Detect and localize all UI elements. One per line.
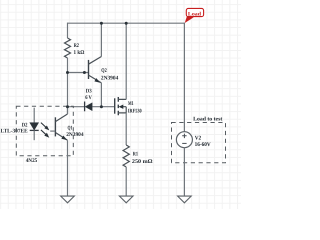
svg-text:4N25: 4N25 [26, 158, 38, 164]
svg-text:6 V: 6 V [85, 95, 92, 101]
wire right vertical to V2 [183, 23, 185, 132]
svg-text:D2: D2 [22, 122, 28, 128]
svg-text:D3: D3 [86, 89, 92, 95]
svg-text:LTL-307EE: LTL-307EE [1, 129, 28, 135]
led D2 [30, 123, 39, 131]
wire R2 top lead [67, 23, 69, 38]
ground middle [119, 196, 133, 203]
svg-text:16-60V: 16-60V [195, 142, 211, 148]
wire M1 source down to R1 [125, 113, 127, 145]
load-to-test dashed box [172, 123, 226, 163]
light arrow 2 [41, 130, 49, 138]
background grid [0, 0, 241, 209]
node dot D3 / Q1 collector [66, 105, 69, 108]
svg-text:R2: R2 [74, 43, 79, 49]
ground right [178, 196, 192, 203]
svg-text:Q2: Q2 [101, 68, 107, 74]
mosfet M1 [115, 97, 127, 115]
transistor Q2 [89, 57, 102, 83]
wire Q1 emitter down [67, 140, 69, 196]
resistor R2 [65, 38, 71, 58]
svg-text:Q1: Q1 [68, 125, 73, 131]
transistor Q1 [50, 114, 67, 140]
wire Q2 base [68, 72, 89, 74]
svg-text:R1: R1 [133, 151, 138, 157]
svg-text:IRF530: IRF530 [128, 108, 142, 114]
resistor R1 [123, 145, 129, 167]
opto-isolator dashed box 4N25 [16, 106, 73, 156]
wire V2 bottom lead [183, 148, 185, 196]
wire Q1 collector up [67, 107, 69, 114]
svg-text:1 kΩ: 1 kΩ [74, 50, 85, 56]
wire Q2 emitter down [100, 83, 102, 107]
led D2 cathode stub [33, 130, 35, 140]
svg-text:M1: M1 [128, 101, 134, 107]
svg-text:V2: V2 [195, 136, 202, 142]
source V2 [176, 132, 192, 148]
svg-text:Load: Load [188, 11, 201, 17]
node dot top rail / M1 drain [125, 22, 128, 25]
svg-text:Load to test: Load to test [193, 117, 222, 123]
node dot Q2 emitter / M1 gate [100, 105, 103, 108]
node Load flag pointer [185, 16, 194, 23]
node Load flag [186, 8, 203, 17]
diode D3 zener [85, 102, 93, 112]
wire M1 drain up [125, 23, 127, 100]
node dot Q2 base pin [83, 71, 86, 74]
ground left [61, 196, 75, 203]
wire left vertical (R2 bottom to opto box) [67, 58, 69, 114]
svg-text:2N3904: 2N3904 [66, 132, 84, 138]
wire top rail [68, 22, 185, 24]
wire Q2 collector [100, 23, 102, 57]
svg-text:2N3904: 2N3904 [101, 76, 119, 82]
node dot top rail / Q2 collector [100, 22, 103, 25]
wire D3 net (left lead, right lead to M1 gate) [68, 106, 115, 108]
led D2 anode stub [33, 108, 35, 123]
wire R1 bottom lead [125, 167, 127, 196]
node dot R2 bottom / Q2 base [66, 71, 69, 74]
light arrow 1 [41, 123, 49, 131]
svg-text:250 mΩ: 250 mΩ [132, 159, 153, 165]
